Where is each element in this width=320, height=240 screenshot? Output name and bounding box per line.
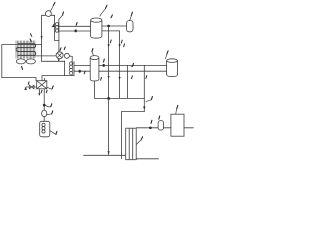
pipe box-right xyxy=(184,127,193,129)
label 4 leader xyxy=(130,16,132,20)
fins xyxy=(16,41,35,59)
coil 12 turns xyxy=(69,62,72,75)
pipe step xyxy=(121,112,144,159)
fan ellipse right xyxy=(26,59,35,64)
label hx xyxy=(141,137,142,140)
pipe 4wv-left xyxy=(26,86,37,88)
label tick x131 xyxy=(131,76,134,79)
pipe mid upper xyxy=(74,65,90,67)
label mid xyxy=(103,59,106,62)
valve bowtie xyxy=(29,85,34,89)
label tank3 xyxy=(92,52,93,55)
pipe separator-out xyxy=(69,56,72,65)
riser C xyxy=(126,65,128,98)
pipe lower left xyxy=(59,30,91,32)
pipe circle7-right xyxy=(51,15,55,40)
label 4wv leader xyxy=(47,87,52,89)
arrow D xyxy=(143,107,145,110)
arrow left xyxy=(24,87,27,88)
riser B xyxy=(119,31,121,99)
label 1 xyxy=(63,12,64,15)
water pipe right xyxy=(136,158,158,160)
label br tick xyxy=(45,90,48,93)
relief valve 4 xyxy=(127,21,133,32)
accumulator 14 xyxy=(40,121,50,137)
stub 4wv top right xyxy=(44,78,46,80)
label pump xyxy=(52,111,53,114)
label 7b leader xyxy=(146,100,151,102)
label 5 xyxy=(167,51,168,54)
arrow B2 xyxy=(119,77,121,80)
arrow under compressor xyxy=(58,59,60,61)
junction dot acc xyxy=(43,104,46,107)
pipe hx-out xyxy=(136,127,158,129)
junction dot H1 xyxy=(107,97,110,100)
coil 1 turns xyxy=(55,23,58,33)
label pump leader xyxy=(47,113,52,116)
accumulator coil xyxy=(42,123,45,133)
label acc xyxy=(51,104,52,107)
label 5 leader xyxy=(165,55,167,59)
pipe pump-acc xyxy=(43,117,45,122)
arrow down-left xyxy=(53,24,55,26)
label acc leader xyxy=(46,105,51,107)
label bowtie xyxy=(27,82,30,84)
label 4 xyxy=(131,12,132,15)
pipe mid upper right xyxy=(99,64,167,66)
label tick left2 xyxy=(30,39,31,42)
label tick A xyxy=(109,40,112,43)
fan ellipse left xyxy=(16,59,25,64)
separator 11 xyxy=(64,53,69,58)
fan motor circle 7 xyxy=(46,11,52,17)
coil unit 12 frame xyxy=(65,61,74,76)
pipe tank3-down xyxy=(95,81,145,98)
pipe coil outlet xyxy=(35,55,57,57)
junction dot mid-left xyxy=(79,70,81,73)
junction dot mid xyxy=(103,64,105,67)
pipe coil1 to compressor xyxy=(58,40,60,52)
label 9 xyxy=(21,66,24,69)
outdoor box xyxy=(2,45,42,81)
label acc2 xyxy=(56,131,57,134)
arrow A2 xyxy=(108,76,110,79)
label 13 xyxy=(131,65,132,68)
tank 2 xyxy=(91,18,102,38)
riser D xyxy=(143,65,145,111)
junction dot 3 xyxy=(107,25,110,28)
label box leader xyxy=(175,109,178,114)
pipe mid lower xyxy=(74,70,90,72)
serpentine coil 9 xyxy=(16,44,36,56)
pipe 4wv-bottomright xyxy=(43,89,45,110)
label mid-left xyxy=(83,71,86,74)
water pipe left xyxy=(84,154,126,156)
label 8 xyxy=(75,23,78,26)
pipe 4wv-bottomleft xyxy=(38,89,40,94)
compressor 10 xyxy=(56,52,63,59)
pipe upper left xyxy=(59,25,91,27)
label 2 leader xyxy=(100,9,106,16)
pipe circle7-left xyxy=(42,15,46,61)
arrow into coil xyxy=(41,36,43,39)
pipe lower right xyxy=(102,30,120,32)
pump oval xyxy=(42,110,47,117)
label acc2 leader xyxy=(50,131,56,135)
label pump2 xyxy=(158,116,161,119)
pipe suction xyxy=(42,60,65,62)
tank 5 xyxy=(167,59,178,77)
plate heat exchanger 15 xyxy=(126,128,137,160)
label tick B2 xyxy=(123,44,126,47)
label box xyxy=(177,105,178,108)
tank 3 xyxy=(90,56,99,81)
pipe upper right xyxy=(102,25,127,27)
pipe 4wv-top xyxy=(42,76,74,81)
arrow bottomleft xyxy=(38,93,40,96)
label 4wv xyxy=(52,86,53,89)
label 3 leader xyxy=(111,15,112,18)
label separator xyxy=(64,47,65,50)
arrow A1 xyxy=(108,44,110,47)
label tick x101 xyxy=(100,77,103,80)
pipe pump-box xyxy=(164,127,171,129)
pump 16 xyxy=(158,121,163,130)
arrow B1 xyxy=(119,44,121,47)
label 1 leader xyxy=(59,15,63,19)
pipe A down xyxy=(108,98,110,154)
label 7b xyxy=(151,97,152,100)
label compressor xyxy=(60,48,61,51)
label 2 xyxy=(106,5,108,8)
label out xyxy=(150,120,153,123)
label 7 leader xyxy=(51,6,54,11)
label hx leader xyxy=(136,140,141,145)
label tick B xyxy=(120,40,123,43)
four-way valve xyxy=(37,81,47,89)
label tick left1 xyxy=(30,34,31,37)
pipe mid lower right xyxy=(99,70,167,72)
junction dot out xyxy=(149,126,152,129)
label bl tick xyxy=(40,90,43,93)
coil unit 1 right rail xyxy=(55,19,59,40)
flow dot 8 xyxy=(75,29,77,32)
label 7 xyxy=(53,2,55,5)
arrow A3 xyxy=(108,151,110,154)
riser A xyxy=(108,26,110,98)
load box 17 xyxy=(171,114,184,136)
label D tick xyxy=(145,76,148,79)
